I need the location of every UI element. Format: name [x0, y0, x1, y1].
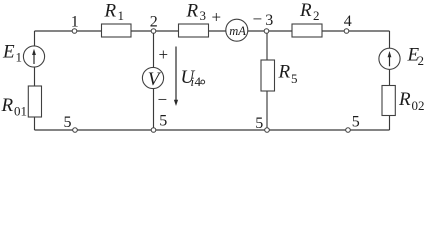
- wire node3 branch vertical: [266, 31, 268, 130]
- svg-text:+: +: [159, 45, 169, 64]
- svg-text:5: 5: [64, 114, 72, 131]
- arrow Ui4 voltage reference: [174, 47, 178, 107]
- node 5 junction circle left: [73, 128, 78, 133]
- svg-text:5: 5: [255, 115, 263, 132]
- svg-text:5: 5: [352, 114, 360, 131]
- resistor R02: [382, 86, 395, 116]
- label R1: [104, 0, 125, 23]
- svg-text:E: E: [2, 42, 15, 63]
- node 5 junction circle under V: [151, 128, 156, 133]
- svg-text:2: 2: [313, 8, 320, 23]
- label R5: [278, 62, 298, 87]
- label E1: [2, 42, 22, 65]
- svg-text:R: R: [186, 1, 199, 22]
- node 3 junction circle: [264, 29, 269, 34]
- node 5 junction circle right: [346, 128, 351, 133]
- wire top horizontal: [35, 30, 390, 32]
- svg-text:5: 5: [291, 71, 298, 86]
- node 1 junction circle: [72, 29, 77, 34]
- svg-text:3: 3: [265, 12, 273, 29]
- resistor R1: [102, 24, 132, 37]
- voltmeter V circle: [142, 67, 163, 88]
- label R02: [398, 89, 425, 113]
- label E2: [407, 45, 425, 69]
- source E2 arrow: [388, 51, 392, 66]
- source E1 circle: [23, 46, 44, 67]
- svg-text:1: 1: [118, 8, 125, 23]
- svg-text:4: 4: [195, 74, 202, 89]
- svg-text:R: R: [299, 0, 312, 21]
- svg-text:−: −: [253, 9, 263, 28]
- svg-text:2: 2: [150, 14, 158, 31]
- source E2 circle: [379, 48, 400, 69]
- svg-text:R: R: [278, 62, 291, 83]
- svg-text:4: 4: [344, 13, 352, 30]
- label R3: [186, 1, 207, 24]
- label R2: [299, 0, 320, 23]
- node 5 junction circle under R5: [265, 128, 270, 133]
- resistor R01: [28, 86, 41, 117]
- svg-text:3: 3: [200, 8, 207, 23]
- source E1 arrow: [32, 49, 36, 64]
- svg-text:+: +: [212, 8, 222, 27]
- svg-text:5: 5: [159, 113, 167, 130]
- svg-text:R: R: [1, 95, 14, 116]
- svg-text:mA: mA: [229, 24, 246, 38]
- svg-text:R: R: [398, 89, 411, 110]
- wire node2 branch vertical: [153, 31, 155, 130]
- resistor R5: [261, 60, 275, 91]
- svg-text:1: 1: [16, 50, 23, 65]
- svg-text:R: R: [104, 0, 117, 21]
- svg-text:01: 01: [14, 104, 27, 119]
- svg-text:02: 02: [412, 98, 425, 113]
- svg-text:1: 1: [71, 13, 79, 30]
- node 4 junction circle: [344, 29, 349, 34]
- node 2 junction circle: [151, 29, 156, 34]
- label Ui4: [181, 67, 205, 89]
- svg-text:2: 2: [418, 53, 425, 68]
- svg-text:−: −: [158, 90, 168, 109]
- milliammeter mA circle: [226, 19, 248, 41]
- resistor R2: [292, 24, 322, 37]
- wire right branch vertical: [389, 31, 391, 130]
- label R01: [1, 95, 28, 119]
- resistor R3: [179, 24, 209, 37]
- wire bottom horizontal: [35, 129, 390, 131]
- wire left branch vertical: [34, 31, 36, 130]
